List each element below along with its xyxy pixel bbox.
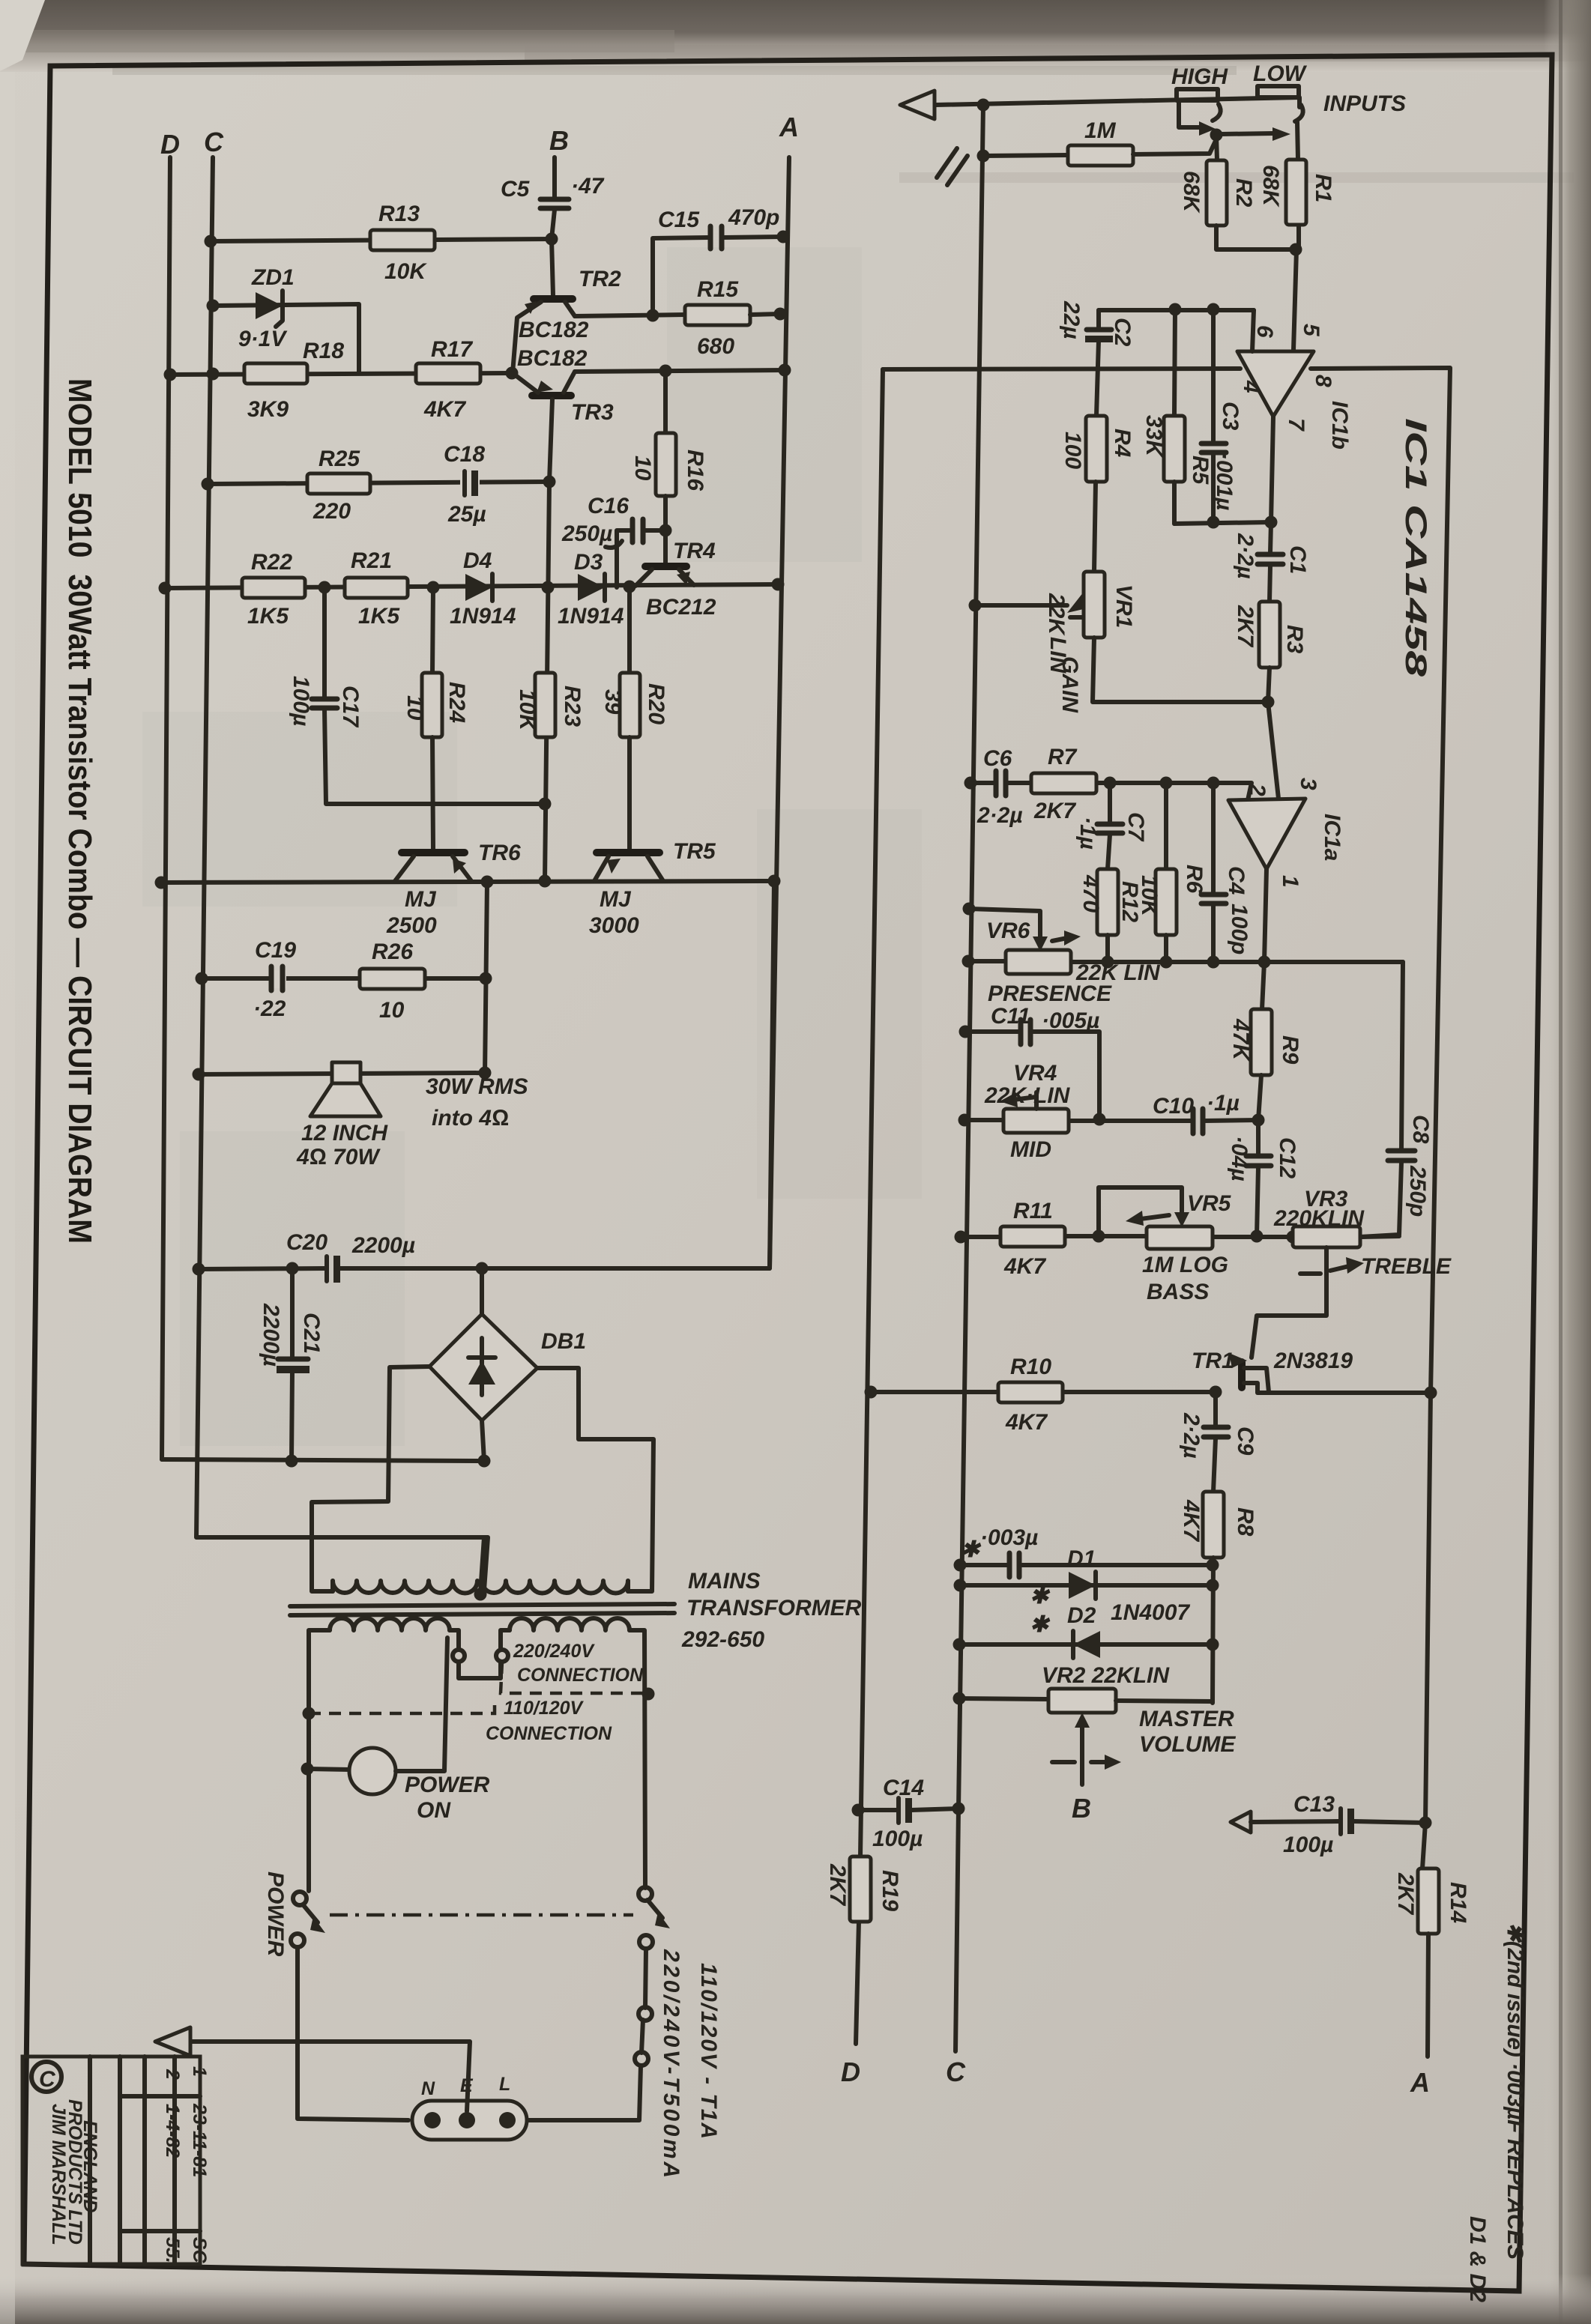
svg-text:TR6: TR6 [478, 841, 521, 865]
svg-text:1M: 1M [1084, 118, 1117, 143]
resistor R26 [360, 939, 425, 1023]
svg-text:R17: R17 [431, 337, 473, 362]
svg-text:L: L [499, 2074, 510, 2095]
svg-text:250p: 250p [1405, 1165, 1430, 1217]
svg-text:25µ: 25µ [447, 502, 486, 527]
svg-text:R9: R9 [1278, 1035, 1302, 1065]
svg-text:D: D [160, 129, 180, 160]
transistor TR6 [386, 841, 521, 938]
svg-text:1-4-82: 1-4-82 [162, 2104, 183, 2158]
svg-text:100µ: 100µ [289, 676, 313, 726]
svg-text:4K7: 4K7 [423, 397, 466, 422]
svg-text:IC1a: IC1a [1320, 814, 1344, 861]
svg-text:4: 4 [1239, 380, 1264, 393]
capacitor .003u [954, 1525, 1213, 1577]
svg-text:R25: R25 [318, 447, 360, 471]
svg-text:12 INCH: 12 INCH [301, 1121, 388, 1146]
resistor R9 [1228, 962, 1302, 1120]
svg-text:4K7: 4K7 [1005, 1410, 1048, 1435]
dashed link 110/120 [309, 1702, 495, 1713]
svg-text:R4: R4 [1110, 429, 1135, 458]
svg-text:TR5: TR5 [673, 839, 716, 864]
resistor R14 [1393, 1868, 1470, 2057]
svg-text:1K5: 1K5 [247, 604, 289, 629]
wire A rail left section [770, 157, 789, 1268]
wire break marks [937, 148, 957, 178]
capacitor C14 [852, 1776, 965, 1851]
svg-text:D4: D4 [463, 548, 492, 573]
svg-text:DB1: DB1 [541, 1329, 586, 1354]
resistor R3 [1233, 602, 1307, 702]
svg-text:8: 8 [1311, 375, 1335, 387]
svg-text:C10: C10 [1153, 1094, 1194, 1119]
capacitor C20 [286, 1230, 415, 1283]
lamp POWER ON [301, 1638, 490, 1823]
capacitor C15 [653, 205, 790, 315]
capacitor C7 [1075, 783, 1148, 869]
svg-text:R10: R10 [1010, 1355, 1051, 1379]
text second issue note [1465, 1922, 1527, 2302]
svg-text:220/240V-T500mA: 220/240V-T500mA [659, 1949, 683, 2178]
svg-text:C20: C20 [286, 1230, 327, 1255]
svg-text:10K: 10K [515, 689, 540, 732]
svg-text:22µ: 22µ [1059, 300, 1084, 339]
resistor R24 [402, 587, 469, 849]
resistor R2 [1179, 160, 1256, 226]
svg-text:R15: R15 [697, 277, 739, 302]
svg-text:2: 2 [162, 2069, 183, 2080]
svg-text:IC1b: IC1b [1327, 401, 1352, 450]
diode D4 [450, 548, 516, 629]
jack HIGH [1171, 64, 1228, 160]
svg-text:10: 10 [379, 998, 405, 1023]
svg-text:MJ: MJ [405, 887, 437, 912]
svg-text:100: 100 [1060, 432, 1085, 469]
potentiometer VR5 bass [1099, 1187, 1232, 1304]
svg-text:220KLIN: 220KLIN [1273, 1206, 1365, 1231]
wire C rail [196, 157, 488, 1590]
svg-text:POWER: POWER [263, 1871, 288, 1957]
resistor R25 [307, 447, 370, 524]
wire pin3 stub [1268, 702, 1278, 799]
svg-text:R1: R1 [1311, 174, 1335, 202]
svg-text:TR3: TR3 [571, 400, 614, 425]
svg-text:4K7: 4K7 [1003, 1254, 1046, 1279]
svg-text:C12: C12 [1275, 1137, 1299, 1178]
resistor R12 470 [1078, 869, 1118, 962]
svg-text:C: C [39, 2067, 56, 2092]
diode D3 [558, 574, 624, 629]
svg-text:C11: C11 [991, 1004, 1030, 1029]
svg-text:220: 220 [313, 499, 351, 524]
transistor TR4 [636, 539, 716, 620]
capacitor C6 [976, 746, 1023, 828]
wire pin4 row [883, 369, 1240, 369]
svg-text:CONNECTION: CONNECTION [486, 1723, 612, 1744]
zener ZD1 [207, 265, 360, 372]
svg-text:VR2 22KLIN: VR2 22KLIN [1042, 1663, 1170, 1688]
svg-text:4Ω 70W: 4Ω 70W [296, 1145, 381, 1169]
resistor R18 [244, 339, 344, 422]
wire speaker feed column [485, 882, 487, 1074]
svg-text:✱: ✱ [1030, 1612, 1051, 1637]
svg-text:22K: 22K [1044, 593, 1069, 636]
wire R17 row [170, 373, 512, 375]
svg-text:1: 1 [189, 2066, 210, 2077]
svg-text:100p: 100p [1227, 904, 1252, 954]
svg-text:R19: R19 [878, 1870, 902, 1911]
wire left rail L2 [955, 103, 983, 2051]
switch power right [527, 1887, 670, 2120]
wire VR1 bottom row [1093, 638, 1268, 702]
svg-text:·001µ: ·001µ [1212, 453, 1237, 510]
svg-text:VR6: VR6 [986, 919, 1030, 943]
svg-text:D1 & D2: D1 & D2 [1465, 2216, 1490, 2302]
potentiometer VR1 [969, 572, 1137, 713]
svg-text:2·2µ: 2·2µ [1233, 533, 1258, 579]
svg-text:30W RMS: 30W RMS [426, 1074, 528, 1099]
svg-text:470p: 470p [728, 205, 779, 230]
svg-text:C13: C13 [1293, 1792, 1335, 1817]
wire bridge left arm [312, 1367, 429, 1591]
svg-text:C16: C16 [588, 494, 629, 518]
resistor R21 [345, 548, 408, 629]
resistor R23 [515, 673, 585, 737]
svg-text:A: A [1410, 2067, 1430, 2098]
svg-text:BASS: BASS [1147, 1280, 1209, 1304]
svg-text:BC212: BC212 [646, 595, 716, 620]
wire ground row [162, 1459, 486, 1461]
svg-text:C18: C18 [444, 442, 485, 467]
resistor R7 [1031, 745, 1096, 823]
svg-text:IC1 CA1458: IC1 CA1458 [1399, 418, 1432, 677]
svg-text:VR5: VR5 [1187, 1191, 1232, 1216]
svg-text:·003µ: ·003µ [980, 1525, 1038, 1550]
resistor R13 [370, 202, 435, 284]
capacitor C10 [1153, 1091, 1240, 1134]
wire TR3 emitter column [545, 482, 549, 881]
svg-text:2K7: 2K7 [825, 1863, 850, 1906]
svg-text:BC182: BC182 [517, 346, 588, 371]
dashed link 220/240 [501, 1662, 648, 1693]
svg-text:9·1V: 9·1V [238, 327, 288, 351]
svg-text:2200µ: 2200µ [259, 1303, 283, 1367]
svg-text:C15: C15 [658, 208, 700, 232]
svg-text:C1: C1 [1285, 545, 1310, 574]
svg-text:B: B [549, 125, 569, 156]
wire left rail L1 [860, 369, 883, 1857]
svg-text:R21: R21 [351, 548, 392, 573]
svg-text:·22: ·22 [253, 996, 286, 1021]
svg-text:R8: R8 [1233, 1507, 1258, 1537]
svg-text:TRANSFORMER: TRANSFORMER [686, 1596, 862, 1621]
svg-text:2: 2 [1245, 783, 1270, 796]
svg-text:5: 5 [1299, 324, 1323, 337]
capacitor C21 [259, 1268, 324, 1461]
svg-text:2K7: 2K7 [1033, 799, 1076, 823]
transformer T1 primary [309, 1618, 645, 1891]
svg-text:C: C [204, 127, 224, 157]
svg-text:68K: 68K [1179, 171, 1204, 214]
svg-text:R7: R7 [1048, 745, 1078, 769]
svg-text:TREBLE: TREBLE [1361, 1254, 1452, 1279]
resistor R11 [1000, 1199, 1065, 1279]
capacitor C9 [1179, 1392, 1258, 1492]
svg-text:220/240V: 220/240V [513, 1641, 595, 1662]
svg-text:ZD1: ZD1 [251, 265, 295, 290]
wire bass treble row [961, 1235, 1000, 1239]
op-amp IC1b [1237, 310, 1352, 522]
svg-text:A: A [779, 112, 799, 142]
svg-text:MASTER: MASTER [1139, 1707, 1234, 1731]
dashed gang link [330, 1913, 633, 1917]
capacitor C8 [1360, 962, 1433, 1237]
wire C2 row [1099, 308, 1254, 312]
svg-text:470: 470 [1078, 874, 1103, 913]
svg-text:VR1: VR1 [1111, 584, 1136, 628]
svg-text:1N4007: 1N4007 [1111, 1600, 1190, 1625]
resistor R22 [242, 550, 305, 629]
svg-text:D2: D2 [1067, 1603, 1096, 1628]
svg-text:1N914: 1N914 [450, 604, 516, 629]
svg-text:10K: 10K [1137, 875, 1162, 918]
svg-text:R2: R2 [1231, 178, 1256, 208]
resistor R8 [1179, 1492, 1258, 1703]
capacitor C17 [289, 587, 545, 804]
wire C6 R7 row [970, 781, 994, 785]
wire mid row [964, 1118, 1003, 1122]
svg-text:✱(2nd issue) ·003µF REPLACES: ✱(2nd issue) ·003µF REPLACES [1503, 1922, 1527, 2260]
svg-text:1N914: 1N914 [558, 604, 624, 629]
wire D rail [162, 157, 170, 1459]
svg-text:110/120V: 110/120V [504, 1698, 585, 1719]
svg-text:MODEL 5010 30Watt Transistor: MODEL 5010 30Watt Transistor Combo — CIR… [61, 378, 98, 1244]
transformer T1 core [290, 1604, 674, 1615]
capacitor C2 [1059, 300, 1135, 416]
svg-text:C7: C7 [1123, 812, 1148, 842]
svg-text:into 4Ω: into 4Ω [432, 1106, 509, 1131]
svg-text:TR2: TR2 [579, 267, 621, 291]
svg-text:R11: R11 [1013, 1199, 1053, 1223]
svg-text:C17: C17 [338, 686, 363, 727]
transistor TR1 2N3819 [1192, 1349, 1353, 1392]
svg-text:VOLUME: VOLUME [1139, 1732, 1236, 1757]
svg-text:2·2µ: 2·2µ [1179, 1412, 1204, 1459]
wire C19 R26 row [202, 976, 486, 981]
capacitor C3 [1201, 309, 1243, 522]
svg-text:✱: ✱ [1030, 1584, 1051, 1609]
svg-text:R23: R23 [560, 686, 585, 727]
resistor R10 [998, 1355, 1063, 1435]
transistor TR3 [513, 346, 614, 482]
svg-text:C2: C2 [1110, 318, 1135, 347]
svg-text:C14: C14 [883, 1776, 924, 1800]
resistor R6 [1117, 783, 1207, 962]
svg-text:B: B [1072, 1793, 1091, 1824]
svg-text:68K: 68K [1258, 165, 1283, 208]
svg-text:R26: R26 [372, 939, 413, 964]
capacitor C5 [501, 157, 605, 239]
svg-text:2·2µ: 2·2µ [976, 803, 1023, 828]
svg-text:·005µ: ·005µ [1042, 1008, 1099, 1033]
svg-text:C9: C9 [1233, 1426, 1258, 1456]
svg-text:1M LOG: 1M LOG [1142, 1253, 1228, 1277]
resistor R20 [600, 587, 668, 849]
svg-text:D3: D3 [574, 550, 603, 575]
svg-text:R18: R18 [303, 339, 344, 363]
svg-text:110/120V - T1A: 110/120V - T1A [696, 1963, 721, 2139]
wire C20 row [199, 1268, 325, 1269]
resistor R16 [630, 365, 707, 566]
svg-text:·47: ·47 [571, 174, 605, 199]
svg-text:33K: 33K [1141, 415, 1166, 458]
svg-text:250µ: 250µ [561, 521, 612, 546]
svg-text:HIGH: HIGH [1171, 64, 1228, 89]
svg-text:·1µ: ·1µ [1075, 817, 1100, 850]
wire TR2 collector row [575, 315, 685, 316]
svg-text:MAINS: MAINS [688, 1569, 761, 1594]
op-amp IC1a [1228, 778, 1344, 962]
svg-text:R20: R20 [644, 683, 668, 724]
capacitor C11 [991, 1004, 1099, 1044]
svg-text:2N3819: 2N3819 [1273, 1349, 1353, 1373]
svg-text:D: D [841, 2057, 860, 2087]
capacitor C12 [1227, 1120, 1299, 1236]
svg-text:10: 10 [630, 456, 655, 481]
revision table [22, 2057, 210, 2264]
svg-text:22K·LIN: 22K·LIN [984, 1083, 1071, 1108]
wire speaker row [199, 1073, 485, 1074]
transformer T1 secondary [333, 1537, 628, 1601]
svg-text:4K7: 4K7 [1179, 1499, 1204, 1542]
transformer tap circles 220/240 [453, 1641, 644, 1686]
mains plug NEL [412, 2074, 527, 2140]
capacitor C19 [253, 938, 296, 1021]
resistor R4 [1060, 416, 1135, 572]
svg-text:CONNECTION: CONNECTION [517, 1665, 644, 1686]
svg-text:C19: C19 [255, 938, 296, 963]
svg-text:10: 10 [402, 695, 427, 721]
svg-text:C5: C5 [501, 177, 531, 202]
svg-text:6: 6 [1252, 325, 1277, 338]
capacitor C13 with arrow [1231, 1792, 1432, 1857]
svg-text:PRESENCE: PRESENCE [988, 981, 1112, 1006]
svg-text:23-11-81: 23-11-81 [189, 2103, 210, 2177]
capacitor C4 [1201, 783, 1252, 962]
svg-text:ENGLAND: ENGLAND [79, 2120, 100, 2213]
svg-text:R22: R22 [251, 550, 292, 575]
resistor R15 [685, 277, 787, 359]
svg-text:2K7: 2K7 [1233, 605, 1258, 647]
svg-text:55.: 55. [162, 2237, 183, 2263]
resistor R5 [1141, 309, 1213, 524]
svg-text:N: N [421, 2078, 435, 2099]
svg-text:47K: 47K [1228, 1018, 1253, 1062]
svg-text:R16: R16 [683, 450, 707, 491]
resistor R1 [1258, 160, 1335, 225]
svg-text:C8: C8 [1408, 1115, 1433, 1144]
svg-text:C: C [946, 2057, 966, 2087]
diode D2 [953, 1584, 1213, 1658]
svg-text:3K9: 3K9 [247, 397, 289, 422]
svg-text:292-650: 292-650 [681, 1627, 764, 1652]
svg-text:INPUTS: INPUTS [1323, 91, 1406, 116]
svg-text:C21: C21 [299, 1313, 324, 1354]
potentiometer VR2 master volume [953, 1663, 1237, 1824]
svg-text:2500: 2500 [386, 913, 437, 938]
svg-text:C4: C4 [1224, 866, 1249, 895]
svg-text:100µ: 100µ [872, 1827, 923, 1851]
svg-text:100µ: 100µ [1283, 1833, 1333, 1857]
wire presence row [968, 959, 1006, 963]
potentiometer VR3 treble [1252, 1187, 1452, 1358]
switch power left [263, 1871, 408, 2120]
resistor R17 [416, 337, 480, 422]
node A arrow top [900, 91, 935, 119]
svg-text:R14: R14 [1446, 1882, 1470, 1923]
svg-text:·04µ: ·04µ [1227, 1136, 1252, 1181]
wire emitter rail row [161, 881, 774, 883]
svg-text:✱: ✱ [961, 1537, 982, 1562]
resistor R1M [977, 118, 1216, 166]
svg-text:10K: 10K [384, 259, 427, 284]
wire pin8 A rail [1311, 368, 1450, 1868]
svg-text:R13: R13 [378, 202, 420, 226]
svg-text:POWER: POWER [405, 1773, 490, 1797]
capacitor C16 [561, 494, 672, 587]
potentiometer VR4 mid [984, 1061, 1071, 1162]
svg-text:R5: R5 [1188, 456, 1213, 485]
svg-text:TR4: TR4 [673, 539, 716, 563]
svg-text:C3: C3 [1218, 402, 1243, 431]
potentiometer VR6 presence [963, 903, 1162, 1007]
wire TR1 row [871, 1390, 998, 1394]
svg-text:2200µ: 2200µ [351, 1233, 415, 1258]
svg-text:D1: D1 [1067, 1546, 1096, 1571]
svg-text:1K5: 1K5 [358, 604, 400, 629]
bridge rectifier DB1 [429, 1268, 586, 1468]
svg-text:C6: C6 [983, 746, 1012, 771]
transistor TR5 [589, 839, 716, 938]
wire bridge right arm [537, 1368, 653, 1591]
svg-text:·1µ: ·1µ [1207, 1091, 1240, 1116]
wire C11 row [965, 1029, 1019, 1034]
wire pin7 row [1174, 522, 1271, 524]
svg-text:680: 680 [697, 334, 734, 359]
svg-text:1: 1 [1278, 875, 1302, 888]
svg-text:2K7: 2K7 [1393, 1872, 1418, 1915]
resistor R19 [825, 1857, 902, 1922]
speaker 12 inch [296, 1062, 528, 1169]
jack LOW [1222, 61, 1406, 160]
wire earth arrow [192, 2042, 470, 2111]
svg-text:R24: R24 [444, 682, 469, 723]
wire bias rail row [165, 584, 778, 588]
svg-text:VR4: VR4 [1013, 1061, 1057, 1086]
svg-text:R6: R6 [1182, 865, 1207, 894]
svg-text:BC182: BC182 [519, 318, 589, 342]
svg-text:GAIN: GAIN [1057, 656, 1082, 713]
svg-text:7: 7 [1284, 418, 1308, 432]
svg-text:LOW: LOW [1253, 61, 1308, 86]
capacitor C1 [1233, 522, 1310, 602]
diode D1 [954, 1546, 1213, 1599]
text mains transformer [681, 1569, 862, 1652]
capacitor C18 [444, 442, 486, 527]
wire R1 R2 join [1216, 226, 1299, 249]
svg-text:39: 39 [600, 689, 625, 715]
svg-text:MID: MID [1010, 1137, 1051, 1162]
